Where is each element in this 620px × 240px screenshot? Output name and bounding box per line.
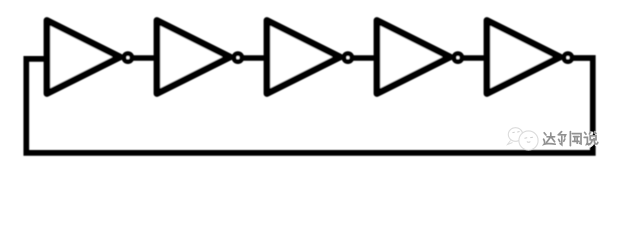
bubble U3 out — [344, 54, 352, 62]
闻 glow — [570, 133, 573, 147]
bubble U4 out — [454, 54, 462, 62]
bubble U2 out — [234, 54, 242, 62]
feedback wire loop (output of U5 to input of U1) — [26, 58, 593, 153]
bubble U5 out — [564, 54, 572, 62]
wire U2->U3 — [240, 55, 267, 61]
inverter U1 — [47, 20, 132, 93]
说 glow — [586, 134, 587, 136]
wire U1->U2 — [130, 55, 157, 61]
inverter U5 — [487, 20, 572, 93]
尔 glow — [560, 133, 563, 136]
说 — [585, 132, 586, 134]
wire U3->U4 — [350, 55, 377, 61]
尔 — [559, 132, 562, 135]
inverter U2 — [157, 20, 242, 93]
inverter U4 — [377, 20, 462, 93]
inverter U3 — [267, 20, 352, 93]
达 — [544, 133, 546, 135]
watermark text 达尔闻说 : white glow layer — [545, 133, 599, 147]
bubble U1 out — [124, 54, 132, 62]
闻 — [569, 132, 571, 146]
watermark text 达尔闻说 : gray glyph strokes — [544, 132, 598, 146]
wire U4->U5 — [460, 55, 487, 61]
watermark logo (two cartoon bubbles) — [508, 128, 539, 150]
达 glow — [545, 134, 547, 136]
